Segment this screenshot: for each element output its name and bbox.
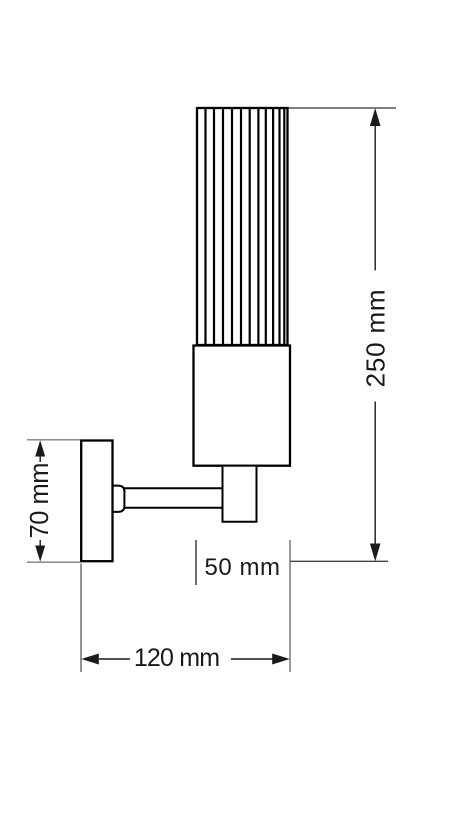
extension line left (120 mm) <box>80 564 82 673</box>
wall mount plate <box>81 441 112 562</box>
extension line bottom (250 mm) <box>290 560 388 562</box>
dimension 70 mm <box>26 440 54 561</box>
dimension 250 mm <box>361 108 391 561</box>
extension line bottom (70 mm) <box>27 561 80 563</box>
lamp body cylinder <box>194 346 291 466</box>
extension line top (250 mm) <box>287 107 396 109</box>
label 50 mm with leader tick <box>196 540 281 585</box>
extension line right (120 mm) <box>289 540 291 672</box>
dimension 120 mm <box>81 644 289 672</box>
arm lower line <box>123 507 223 509</box>
svg-text:50 mm: 50 mm <box>205 554 281 581</box>
svg-text:120 mm: 120 mm <box>134 644 220 672</box>
svg-text:250 mm: 250 mm <box>361 289 391 388</box>
fluted glass tube shade <box>197 108 288 345</box>
socket connector block <box>223 467 257 522</box>
arm upper line <box>123 487 223 489</box>
pivot knob <box>113 486 125 512</box>
extension line top (70 mm) <box>27 439 80 441</box>
svg-text:70 mm: 70 mm <box>26 463 54 538</box>
